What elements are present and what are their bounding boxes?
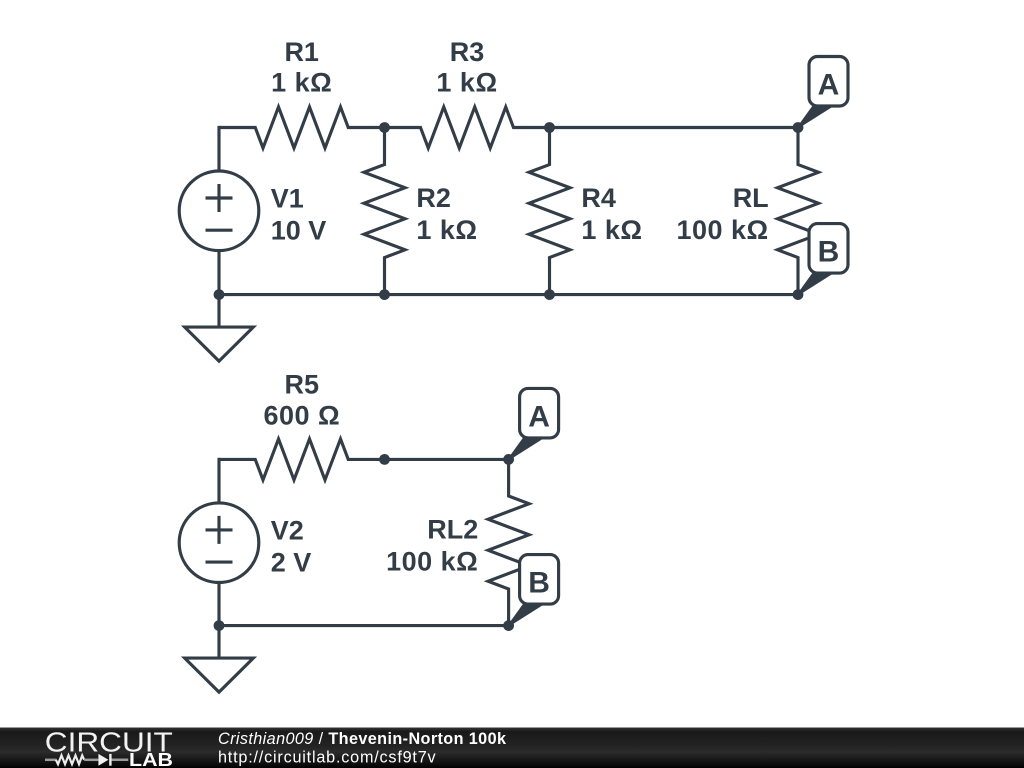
wire bottom-circuit top-left corner to V2 bbox=[217, 458, 220, 503]
svg-text:100 kΩ: 100 kΩ bbox=[676, 215, 768, 245]
node R5 right bbox=[379, 454, 390, 465]
resistor RL2 bbox=[488, 459, 529, 625]
label RL2 bbox=[386, 514, 478, 576]
svg-text:R2: R2 bbox=[416, 183, 451, 213]
wire R5 to node A2 bbox=[385, 458, 509, 461]
svg-text:600 Ω: 600 Ω bbox=[263, 400, 340, 430]
svg-text:Cristhian009 / Thevenin-Norton: Cristhian009 / Thevenin-Norton 100k bbox=[218, 730, 507, 748]
label R4 bbox=[581, 183, 642, 245]
ground bottom circuit bbox=[185, 626, 254, 693]
svg-text:1 kΩ: 1 kΩ bbox=[416, 215, 477, 245]
node A2 bbox=[503, 454, 514, 465]
node ground junction bbox=[214, 289, 225, 300]
flag B2 bbox=[509, 555, 559, 626]
svg-text:1 kΩ: 1 kΩ bbox=[581, 215, 642, 245]
wire V1 to bottom rail bbox=[217, 251, 220, 295]
label V1 bbox=[271, 184, 327, 246]
resistor RL bbox=[778, 128, 819, 295]
svg-text:A: A bbox=[528, 400, 550, 433]
svg-text:B: B bbox=[818, 236, 840, 269]
node ground junction 2 bbox=[214, 620, 225, 631]
node B bottom bbox=[793, 289, 804, 300]
svg-text:V2: V2 bbox=[271, 516, 304, 546]
svg-text:1 kΩ: 1 kΩ bbox=[271, 68, 332, 98]
node junction R1-R2-R3 bbox=[379, 122, 390, 133]
svg-text:RL: RL bbox=[733, 183, 769, 213]
label R5 bbox=[263, 369, 340, 430]
svg-text:A: A bbox=[818, 69, 840, 102]
svg-text:V1: V1 bbox=[271, 184, 304, 214]
svg-text:10 V: 10 V bbox=[271, 216, 327, 246]
wire node to RL top bbox=[550, 126, 799, 129]
svg-text:R5: R5 bbox=[285, 369, 320, 399]
svg-text:RL2: RL2 bbox=[427, 514, 478, 544]
flag A bbox=[798, 57, 848, 128]
resistor R1 bbox=[219, 107, 385, 148]
svg-text:LAB: LAB bbox=[129, 749, 173, 768]
resistor R5 bbox=[219, 439, 385, 480]
svg-text:R1: R1 bbox=[284, 37, 319, 67]
voltage source V1 bbox=[179, 171, 259, 251]
flag B bbox=[798, 224, 848, 295]
node junction R3-R4 bbox=[544, 122, 555, 133]
flag A2 bbox=[509, 388, 559, 459]
svg-text:B: B bbox=[528, 567, 550, 600]
resistor R2 bbox=[364, 128, 405, 295]
svg-text:1 kΩ: 1 kΩ bbox=[436, 68, 497, 98]
svg-text:R4: R4 bbox=[581, 183, 616, 213]
resistor R3 bbox=[385, 107, 550, 148]
logo resistor-diode symbol bbox=[45, 759, 57, 762]
wire bottom rail bbox=[219, 293, 798, 296]
svg-text:R3: R3 bbox=[450, 37, 485, 67]
svg-text:2 V: 2 V bbox=[271, 548, 312, 578]
svg-text:100 kΩ: 100 kΩ bbox=[386, 546, 478, 576]
label R2 bbox=[416, 183, 477, 245]
resistor R4 bbox=[529, 128, 570, 295]
node B2 bbox=[503, 620, 514, 631]
wire bottom rail 2 bbox=[219, 624, 509, 627]
svg-text:http://circuitlab.com/csf9t7v: http://circuitlab.com/csf9t7v bbox=[218, 749, 437, 767]
voltage source V2 bbox=[179, 503, 259, 583]
wire V2 to bottom rail bbox=[217, 583, 220, 626]
label V2 bbox=[271, 516, 312, 578]
ground top circuit bbox=[185, 295, 254, 362]
wire top-left corner to V1 bbox=[217, 126, 220, 171]
node R2 bottom bbox=[379, 289, 390, 300]
label R3 bbox=[436, 37, 497, 98]
node A top bbox=[793, 122, 804, 133]
node R4 bottom bbox=[544, 289, 555, 300]
label R1 bbox=[271, 37, 332, 98]
label RL bbox=[676, 183, 768, 245]
